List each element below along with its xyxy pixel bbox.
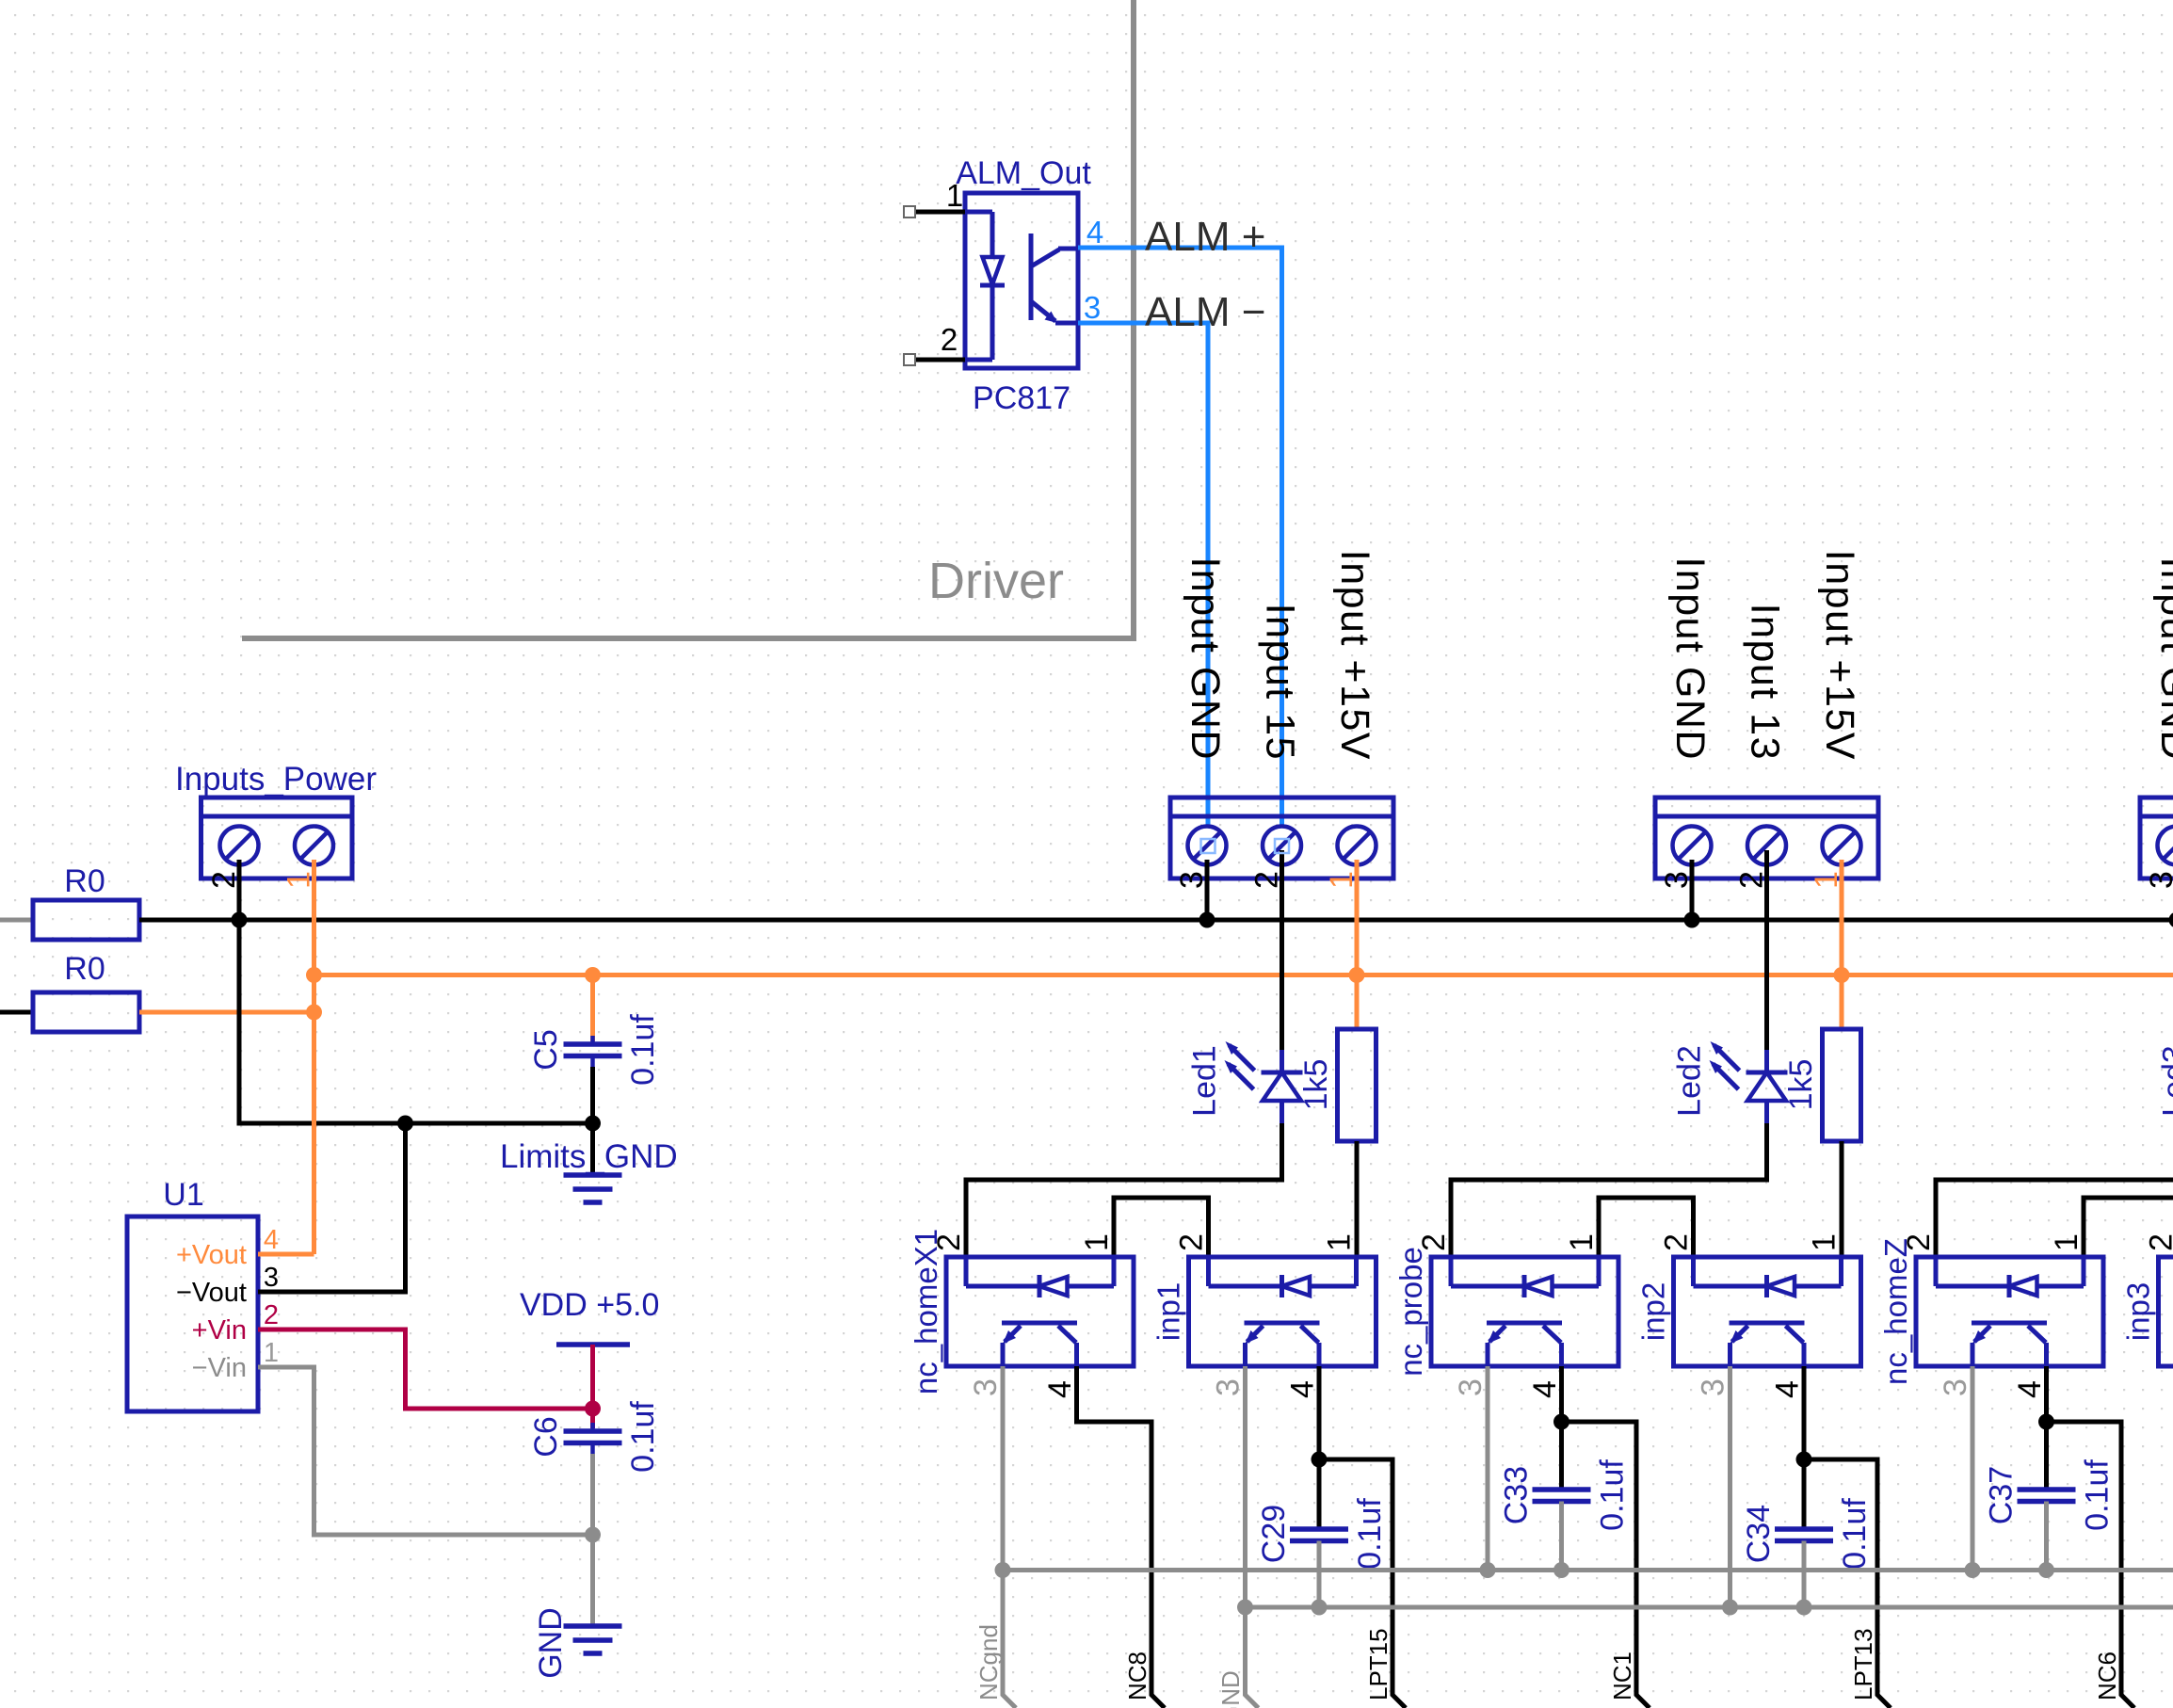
junction inp2 pin3 / bus2 (1722, 1600, 1738, 1616)
svg-text:4: 4 (1770, 1380, 1806, 1398)
label Led2 (1672, 1045, 1708, 1117)
wire resistor to opto pin1 (1840, 1141, 1844, 1257)
svg-text:2: 2 (941, 322, 958, 357)
label C33 (1499, 1466, 1535, 1524)
label C29 (1256, 1505, 1292, 1563)
resistor R0 (bottom) (33, 992, 139, 1032)
wire nc_probe pin4 to NC1 (1562, 1366, 1650, 1708)
svg-text:C29: C29 (1256, 1505, 1292, 1563)
svg-text:4: 4 (1086, 215, 1103, 250)
svg-text:R0: R0 (64, 951, 105, 987)
label GND (power) (533, 1607, 569, 1679)
junction nc_probe pin4 / C33 (1553, 1414, 1569, 1430)
pin 1 label (J2) (1324, 871, 1360, 889)
wire orange +15V bus (314, 973, 2173, 977)
wire nc_homeZ pin4 to NC6 (2047, 1366, 2135, 1708)
junction inp1 pin4 / C29 (1312, 1452, 1328, 1468)
junction nc_homeZ pin4 / C37 (2038, 1414, 2054, 1430)
junction J4 pin3 / GND bus (2169, 912, 2173, 928)
junction orange bus / C5 (585, 967, 601, 983)
svg-text:Input GND: Input GND (1667, 556, 1713, 761)
pin 2 open pad (904, 354, 915, 365)
pin 3 label (nc_homeZ) (1938, 1378, 1973, 1396)
capacitor C33 (1533, 1490, 1591, 1502)
junction C5 / Limits_GND node (585, 1116, 601, 1132)
svg-text:nc_homeX1: nc_homeX1 (909, 1229, 943, 1394)
svg-text:2: 2 (1416, 1233, 1452, 1251)
svg-text:GND: GND (1216, 1670, 1245, 1708)
wire ALM- (PC817 pin3 to connector pin3) (1078, 323, 1208, 850)
value 0.1uf (C5) (625, 1014, 661, 1086)
pin 2 label (J3) (1734, 871, 1770, 889)
pin name +Vin (192, 1315, 247, 1345)
power module U1 body (127, 1217, 258, 1411)
pin 1 label (nc_homeZ) (2049, 1233, 2084, 1251)
pin 4 label (nc_probe) (1527, 1380, 1563, 1398)
capacitor C34 (1775, 1529, 1833, 1541)
wire J3 pin2 to Led2 (1764, 850, 1769, 1050)
junction J2 pin3 / GND bus (1199, 912, 1215, 928)
svg-text:Led3: Led3 (2157, 1045, 2173, 1117)
connector J3 Input terminal x3 (1655, 798, 1878, 878)
svg-text:LPT13: LPT13 (1849, 1628, 1877, 1700)
junction NCgnd / gray bus1 (995, 1562, 1011, 1578)
net label Input GND (J2) (1183, 556, 1228, 761)
svg-text:4: 4 (2012, 1380, 2048, 1398)
pin 4 label (nc_homeZ) (2012, 1380, 2048, 1398)
wire to GND symbol (590, 1535, 595, 1626)
wire J2 pin2 to Led1 (1280, 850, 1284, 1050)
resistor 1k5 (channel 2) (1823, 1029, 1861, 1141)
wire nc_probe pin1 to inp2 pin2 (1599, 1198, 1694, 1257)
connector Inputs_Power (screw terminal x2) (201, 798, 353, 878)
pin name +Vout (176, 1240, 247, 1270)
svg-text:U1: U1 (163, 1177, 203, 1213)
junction C29 / bus2 (1312, 1600, 1328, 1616)
net label Input +15V (J2) (1332, 550, 1377, 761)
net label Input 15 (J2) (1258, 604, 1303, 761)
wire orange R0 to +15V vertical (139, 1010, 314, 1015)
pin 1 label (PC817) (946, 178, 963, 213)
pin 3 label (J2) (1174, 871, 1210, 889)
pin 1 number (U1) (264, 1338, 279, 1368)
svg-text:1: 1 (1564, 1233, 1600, 1251)
svg-text:nc_homeZ: nc_homeZ (1878, 1238, 1913, 1385)
wire C37 to gray bus1 (2044, 1502, 2049, 1571)
connector J4 Input terminal x3 (2140, 798, 2173, 878)
pin 3 label (J3) (1659, 871, 1695, 889)
wire orange stub to C5 (590, 975, 595, 1042)
zone label Driver (928, 553, 1064, 609)
svg-text:1k5: 1k5 (1783, 1059, 1819, 1111)
svg-text:3: 3 (1174, 871, 1210, 889)
pin 2 label (nc_homeX1) (931, 1233, 967, 1251)
label nc_homeZ (1878, 1238, 1913, 1385)
value 1k5 (channel 1) (1298, 1059, 1334, 1111)
pin 1 label (Inputs_Power) (282, 871, 317, 889)
label Limits_GND (500, 1138, 678, 1175)
label nc_homeX1 (909, 1229, 943, 1394)
label PC817 (973, 380, 1070, 416)
pin name -Vin (192, 1353, 247, 1383)
svg-text:4: 4 (1285, 1380, 1321, 1398)
label R0 (top) (64, 863, 105, 899)
value 0.1uf (C37) (2080, 1459, 2116, 1531)
pin name -Vout (176, 1278, 247, 1308)
pin 4 label (PC817) (1086, 215, 1103, 250)
wire nc_homeZ pin3 to gray bus1 (1971, 1366, 1975, 1571)
svg-text:Led2: Led2 (1672, 1045, 1708, 1117)
svg-text:C33: C33 (1499, 1466, 1535, 1524)
pin 3 label (J4) (2144, 871, 2173, 889)
svg-text:1: 1 (1809, 871, 1844, 889)
LED Led2 (1710, 1041, 1788, 1123)
svg-text:2: 2 (931, 1233, 967, 1251)
junction nc_probe pin3 / bus1 (1480, 1562, 1496, 1578)
svg-text:3: 3 (968, 1378, 1004, 1396)
svg-text:2: 2 (1659, 1233, 1695, 1251)
wire node to ground symbol (590, 1123, 595, 1175)
pin 2 label (J2) (1249, 871, 1285, 889)
label inp3 (2121, 1282, 2156, 1341)
svg-text:ALM +: ALM + (1145, 214, 1265, 260)
wire J3 pin3 to GND bus (1690, 860, 1695, 920)
LED Led1 (1225, 1041, 1303, 1123)
wire J3 pin1 to resistor (1840, 860, 1844, 1029)
connector J2 Input terminal x3 (1170, 798, 1393, 878)
svg-text:LPT15: LPT15 (1364, 1628, 1392, 1700)
svg-text:2: 2 (1174, 1233, 1210, 1251)
label Led3 (2157, 1045, 2173, 1117)
svg-text:ALM_Out: ALM_Out (956, 155, 1091, 191)
svg-text:+Vout: +Vout (176, 1240, 247, 1270)
junction C34 / bus2 (1796, 1600, 1812, 1616)
resistor 1k5 (channel 1) (1338, 1029, 1376, 1141)
svg-text:1: 1 (264, 1338, 279, 1368)
pin 2 label (Inputs_Power) (206, 871, 242, 889)
ground symbol GND (564, 1626, 622, 1653)
optocoupler inp2 (1674, 1257, 1861, 1366)
capacitor C5 (564, 1036, 622, 1067)
svg-text:4: 4 (264, 1225, 279, 1255)
wire C34 to gray bus2 (1802, 1541, 1807, 1608)
svg-text:3: 3 (1696, 1378, 1731, 1396)
zone divider line (Driver area border) (242, 0, 1136, 638)
junction +15V bus / resistor R2 (1834, 967, 1850, 983)
wire U1 -Vin to C6 bottom node (258, 1367, 593, 1535)
svg-text:nc_probe: nc_probe (1393, 1247, 1428, 1377)
svg-text:Input +15V: Input +15V (1332, 550, 1377, 761)
wire VDD to C6 (590, 1345, 595, 1428)
net label Input GND (J3) (1667, 556, 1713, 761)
svg-text:ALM −: ALM − (1145, 289, 1265, 335)
svg-text:2: 2 (206, 871, 242, 889)
wire U1 +Vout to orange vertical (258, 1252, 314, 1257)
svg-text:1: 1 (1079, 1233, 1115, 1251)
pin 4 label (nc_homeX1) (1042, 1380, 1078, 1398)
pin 2 label (inp3) (2144, 1233, 2173, 1251)
svg-text:2: 2 (1249, 871, 1285, 889)
pin 2 label (nc_homeZ) (1901, 1233, 1937, 1251)
net label ALM + (1145, 214, 1265, 260)
label Led1 (1187, 1045, 1223, 1117)
net label Input 13 (J3) (1743, 604, 1788, 761)
pin 3 label (PC817) (1084, 290, 1101, 325)
svg-text:Input GND: Input GND (1183, 556, 1228, 761)
pin 2 number (U1) (264, 1300, 279, 1330)
wire C6 bottom gray (590, 1454, 595, 1535)
label Inputs_Power (175, 761, 377, 798)
junction nc_homeZ pin3 / bus1 (1965, 1562, 1981, 1578)
pin 1 label (inp2) (1807, 1233, 1843, 1251)
wire Led1 to nc_homeX1 pin2 (966, 1123, 1282, 1257)
label inp2 (1636, 1282, 1671, 1341)
svg-text:3: 3 (1938, 1378, 1973, 1396)
wire Inputs_Power pin2 down-right to C5 node (239, 860, 593, 1123)
pin 2 stub wire (916, 358, 965, 363)
wire to C33 (1559, 1422, 1564, 1490)
label C37 (1984, 1466, 2020, 1524)
pin 1 label (nc_homeX1) (1079, 1233, 1115, 1251)
label C5 (528, 1029, 564, 1070)
junction VDD / +Vin (585, 1401, 601, 1417)
wire nc_homeX1 pin4 to NC8 (1077, 1366, 1166, 1708)
pin highlight square (J2 pin2) (1275, 839, 1289, 853)
junction -Vout node (397, 1116, 413, 1132)
pin 2 label (PC817) (941, 322, 958, 357)
pin 1 open pad (904, 206, 915, 218)
wire nc_homeZ pin1 to inp3 pin2 (2084, 1198, 2173, 1257)
wire C29 to gray bus2 (1317, 1541, 1322, 1608)
wire U1 -Vout up to GND node (258, 1123, 406, 1292)
net label Input GND (J4) (2152, 556, 2173, 761)
wire to C37 (2044, 1422, 2049, 1490)
net label NC1 (1608, 1652, 1636, 1700)
svg-text:−Vin: −Vin (192, 1353, 247, 1383)
wire Led2 to nc_probe pin2 (1451, 1123, 1767, 1257)
optocoupler nc_homeZ (1916, 1257, 2103, 1366)
value 0.1uf (C33) (1595, 1459, 1631, 1531)
net label NCgnd (974, 1624, 1003, 1700)
svg-text:1: 1 (1322, 1233, 1358, 1251)
power symbol VDD +5.0 bar (556, 1342, 630, 1347)
pin highlight square (J2 pin3) (1201, 839, 1215, 853)
junction orange R0 branch (306, 1005, 322, 1021)
value 0.1uf (C29) (1352, 1498, 1388, 1570)
net label LPT13 (1849, 1628, 1877, 1700)
wire inp1 pin4 to LPT15 (1319, 1366, 1406, 1708)
wire gray bus1 (NCgnd net) (1003, 1568, 2173, 1572)
svg-text:C37: C37 (1984, 1466, 2020, 1524)
svg-text:1: 1 (2049, 1233, 2084, 1251)
svg-text:C34: C34 (1741, 1505, 1777, 1563)
pin 3 label (nc_homeX1) (968, 1378, 1004, 1396)
svg-text:1k5: 1k5 (1298, 1059, 1334, 1111)
svg-text:Inputs_Power: Inputs_Power (175, 761, 377, 798)
wire inp2 pin3 to gray bus2 (1728, 1366, 1732, 1607)
label C34 (1741, 1505, 1777, 1563)
svg-text:Limits_GND: Limits_GND (500, 1138, 678, 1175)
resistor R0 (top) (33, 900, 139, 940)
svg-text:Led1: Led1 (1187, 1045, 1223, 1117)
pin 3 label (inp2) (1696, 1378, 1731, 1396)
svg-text:4: 4 (1527, 1380, 1563, 1398)
svg-text:2: 2 (2144, 1233, 2173, 1251)
capacitor C29 (1290, 1529, 1348, 1541)
svg-text:NC6: NC6 (2093, 1652, 2121, 1700)
net label NC8 (1123, 1652, 1151, 1700)
svg-text:3: 3 (2144, 871, 2173, 889)
svg-text:NC1: NC1 (1608, 1652, 1636, 1700)
label C6 (528, 1416, 564, 1457)
label R0 (bottom) (64, 951, 105, 987)
svg-text:0.1uf: 0.1uf (625, 1014, 661, 1086)
value 0.1uf (C6) (625, 1401, 661, 1473)
label U1 (163, 1177, 203, 1213)
junction C33 / bus1 (1553, 1562, 1569, 1578)
pin 3 label (nc_probe) (1453, 1378, 1489, 1396)
svg-text:1: 1 (282, 871, 317, 889)
svg-text:C5: C5 (528, 1029, 564, 1070)
svg-text:inp2: inp2 (1636, 1282, 1671, 1341)
label ALM_Out (956, 155, 1091, 191)
svg-text:Input +15V: Input +15V (1817, 550, 1862, 761)
wire nc_homeX1 pin1 to inp1 pin2 (1114, 1198, 1209, 1257)
svg-text:0.1uf: 0.1uf (1595, 1459, 1631, 1531)
pin 1 label (nc_probe) (1564, 1233, 1600, 1251)
optocoupler inp1 (1189, 1257, 1376, 1366)
pin 2 label (inp1) (1174, 1233, 1210, 1251)
svg-text:inp3: inp3 (2121, 1282, 2156, 1341)
svg-text:inp1: inp1 (1151, 1282, 1186, 1341)
wire ALM+ (PC817 pin4 to connector pin2) (1078, 248, 1282, 850)
value 0.1uf (C34) (1837, 1498, 1873, 1570)
net label Input +15V (J3) (1817, 550, 1862, 761)
svg-text:4: 4 (1042, 1380, 1078, 1398)
pin 4 number (U1) (264, 1225, 279, 1255)
value 1k5 (channel 2) (1783, 1059, 1819, 1111)
label VDD +5.0 (520, 1287, 659, 1323)
wire to C29 (1317, 1459, 1322, 1529)
label nc_probe (1393, 1247, 1428, 1377)
wire nc_probe pin3 to gray bus1 (1486, 1366, 1490, 1571)
capacitor C6 (564, 1423, 622, 1454)
op-amp U? : optocoupler ALM_Out PC817 body (965, 193, 1078, 368)
junction +15V bus / resistor R1 (1349, 967, 1365, 983)
wire to C34 (1802, 1459, 1807, 1529)
svg-text:3: 3 (264, 1263, 279, 1293)
pin 3 label (inp1) (1211, 1378, 1247, 1396)
optocoupler nc_probe (1431, 1257, 1618, 1366)
pin 2 label (nc_probe) (1416, 1233, 1452, 1251)
svg-text:2: 2 (1901, 1233, 1937, 1251)
svg-text:NCgnd: NCgnd (974, 1624, 1003, 1700)
svg-text:3: 3 (1211, 1378, 1247, 1396)
ground symbol Limits_GND (564, 1175, 622, 1202)
svg-text:C6: C6 (528, 1416, 564, 1457)
label inp1 (1151, 1282, 1186, 1341)
optocoupler nc_homeX1 (946, 1257, 1134, 1366)
pin 1 label (inp1) (1322, 1233, 1358, 1251)
wire gray bus2 (GND net) (1246, 1605, 2173, 1610)
junction C6 / -Vin (585, 1527, 601, 1543)
wire inp1 pin3 to GND tail (1246, 1366, 1259, 1708)
svg-text:3: 3 (1659, 871, 1695, 889)
pin 4 label (inp2) (1770, 1380, 1806, 1398)
wire C5 bottom to GND node (590, 1067, 595, 1123)
svg-text:Input 13: Input 13 (1743, 604, 1788, 761)
svg-text:0.1uf: 0.1uf (1837, 1498, 1873, 1570)
capacitor C37 (2018, 1490, 2076, 1502)
svg-text:0.1uf: 0.1uf (2080, 1459, 2116, 1531)
net label GND (tail) (1216, 1670, 1245, 1708)
junction orange bus / pin1 wire (306, 967, 322, 983)
svg-text:3: 3 (1084, 290, 1101, 325)
pin 2 label (inp2) (1659, 1233, 1695, 1251)
junction GND tail / gray bus2 (1237, 1600, 1253, 1616)
wire U1 +Vin to VDD (258, 1329, 593, 1409)
wire nc_homeX1 pin3 to NCgnd tail (1003, 1366, 1016, 1708)
wire Inputs_Power pin1 orange down to U1 +Vout (312, 860, 316, 1254)
svg-text:GND: GND (533, 1607, 569, 1679)
optocoupler inp3 (2159, 1257, 2173, 1366)
svg-text:Input 15: Input 15 (1258, 604, 1303, 761)
wire black stub into R0 (bottom) (0, 1010, 33, 1015)
wire C33 to gray bus1 (1559, 1502, 1564, 1571)
pin 1 label (J3) (1809, 871, 1844, 889)
wire resistor to opto pin1 (1355, 1141, 1360, 1257)
svg-text:1: 1 (946, 178, 963, 213)
wire gray stub into R0 (top) (0, 918, 33, 923)
svg-text:2: 2 (1734, 871, 1770, 889)
svg-text:VDD +5.0: VDD +5.0 (520, 1287, 659, 1323)
junction inp2 pin4 / C34 (1796, 1452, 1812, 1468)
svg-text:−Vout: −Vout (176, 1278, 247, 1308)
wire J2 pin1 to resistor (1355, 860, 1360, 1029)
svg-text:Driver: Driver (928, 553, 1064, 609)
svg-text:3: 3 (1453, 1378, 1489, 1396)
svg-text:2: 2 (264, 1300, 279, 1330)
svg-text:0.1uf: 0.1uf (625, 1401, 661, 1473)
svg-text:NC8: NC8 (1123, 1652, 1151, 1700)
pin 4 label (inp1) (1285, 1380, 1321, 1398)
junction Inputs_Power pin2 / GND bus (232, 912, 248, 928)
pin 3 number (U1) (264, 1263, 279, 1293)
net label LPT15 (1364, 1628, 1392, 1700)
wire J2 pin3 to GND bus (1205, 860, 1210, 920)
svg-text:R0: R0 (64, 863, 105, 899)
wire Led3 to nc_homeZ pin2 (1936, 1123, 2173, 1257)
net label NC6 (2093, 1652, 2121, 1700)
svg-text:Input GND: Input GND (2152, 556, 2173, 761)
svg-text:PC817: PC817 (973, 380, 1070, 416)
svg-text:1: 1 (1324, 871, 1360, 889)
pin 1 stub wire (916, 210, 965, 215)
net label ALM - (1145, 289, 1265, 335)
svg-text:1: 1 (1807, 1233, 1843, 1251)
junction J3 pin3 / GND bus (1684, 912, 1700, 928)
svg-text:+Vin: +Vin (192, 1315, 247, 1345)
svg-text:0.1uf: 0.1uf (1352, 1498, 1388, 1570)
wire black GND bus (139, 918, 2173, 923)
wire inp2 pin4 to LPT13 (1804, 1366, 1891, 1708)
junction C37 / bus1 (2038, 1562, 2054, 1578)
